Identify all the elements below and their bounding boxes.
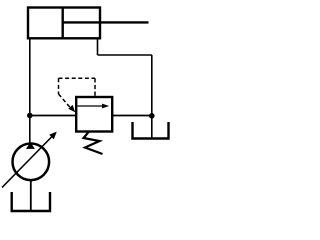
cylinder piston: [62, 8, 64, 39]
cylinder body: [28, 8, 100, 39]
pilot line dashed left vertical: [58, 78, 60, 94]
tank left: [12, 192, 50, 211]
wire: junction down into tank: [151, 116, 153, 138]
node junction right: [149, 113, 155, 119]
pump variable arrow: [2, 132, 57, 188]
tank right: [133, 122, 169, 139]
wire: top right horizontal: [98, 54, 152, 56]
wire: right vertical down: [151, 55, 153, 116]
wire: valve to right junction: [112, 115, 152, 117]
pump circle: [13, 144, 50, 181]
node junction left: [27, 113, 33, 119]
cylinder rod: [63, 21, 149, 23]
wire: cylinder right port down: [97, 38, 99, 55]
wire: pump down into tank: [30, 180, 32, 210]
valve spring: [84, 132, 103, 155]
valve body: [76, 97, 112, 132]
valve flow arrow: [78, 104, 110, 109]
wire: cylinder left port down: [29, 38, 31, 115]
pilot line dashed top: [59, 77, 96, 79]
wire: main line left to valve: [30, 115, 76, 117]
pilot line dashed diagonal with arrow: [59, 94, 76, 112]
pump flow triangle: [26, 142, 35, 149]
pilot line dashed right vertical: [94, 78, 96, 97]
wire: junction down to pump: [29, 116, 31, 145]
